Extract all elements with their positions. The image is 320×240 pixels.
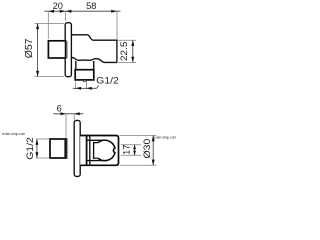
svg-text:58: 58 xyxy=(86,1,96,11)
C-ring cradle xyxy=(98,140,115,160)
wall plate (side view) xyxy=(65,23,71,77)
arrow left of 20 xyxy=(48,10,54,13)
arrow right of 58 xyxy=(111,10,117,13)
extension line holder top right xyxy=(118,39,136,41)
arrow right of 20 xyxy=(60,10,66,13)
svg-text:Ø57: Ø57 xyxy=(24,39,35,59)
G1/2 dimension line (bottom view) xyxy=(36,139,38,158)
hidden thread shading xyxy=(66,138,68,158)
svg-text:G1/2: G1/2 xyxy=(25,137,35,160)
thread arrow right xyxy=(86,87,91,90)
arrow bottom Ø57 xyxy=(36,71,39,77)
svg-text:G1/2: G1/2 xyxy=(96,75,118,85)
dimension line 22.5 xyxy=(132,40,134,62)
clamp slot back wall xyxy=(93,142,95,159)
dimension line Ø30 xyxy=(152,136,154,166)
dimension line Ø57 xyxy=(37,23,39,76)
extension line holder bottom right xyxy=(118,61,136,63)
inlet stub (bottom view) xyxy=(50,139,66,158)
arrow top Ø30 xyxy=(152,136,155,142)
wall plate (bottom view) xyxy=(74,120,80,176)
holder clamp outer (bottom view) xyxy=(80,136,118,166)
outlet dome sides xyxy=(76,61,94,70)
extension line at plate face xyxy=(65,12,67,21)
G1/2 extension bottom xyxy=(36,157,50,159)
dimension Ø30 extension bottom xyxy=(120,164,157,166)
thread dim line xyxy=(73,87,96,89)
clamp arm inner top xyxy=(87,139,105,141)
arrow bottom 22.5 xyxy=(131,57,134,63)
dimension 17 extension top xyxy=(121,144,141,146)
inlet stub (side view) xyxy=(48,41,65,58)
holder body top profile xyxy=(71,35,117,63)
arrow left of 58 xyxy=(66,10,72,13)
clamp left inner line xyxy=(89,136,91,165)
dimension 17 extension bottom xyxy=(121,154,141,156)
clamp arm inner bottom xyxy=(87,160,105,162)
G1/2 arrow bottom xyxy=(35,152,38,158)
dimension line 6 xyxy=(53,113,83,115)
G1/2 arrow top xyxy=(35,139,38,145)
svg-text:reuter-shop.com: reuter-shop.com xyxy=(2,132,26,136)
dimension line 17 xyxy=(134,145,136,156)
extension line plate face bottom view xyxy=(73,115,75,121)
thread arrow left xyxy=(76,87,81,90)
arrow right of 6 xyxy=(74,112,80,115)
dimension line 20/58 xyxy=(45,10,121,12)
extension line at stub left xyxy=(47,12,49,39)
arrow top 17 xyxy=(133,145,136,150)
extension line stub end xyxy=(65,115,67,139)
thread nub xyxy=(83,80,86,81)
extension line at holder right xyxy=(116,12,118,39)
outlet flange xyxy=(75,70,94,80)
svg-text:6: 6 xyxy=(57,104,62,114)
leader to G1/2 xyxy=(96,85,98,88)
arrow bottom Ø30 xyxy=(152,160,155,166)
G1/2 extension top xyxy=(36,138,50,140)
svg-text:Ø30: Ø30 xyxy=(142,139,152,159)
hidden stub edge shading xyxy=(66,41,68,58)
thread dim extension left xyxy=(74,82,76,90)
svg-text:22.5: 22.5 xyxy=(119,42,129,61)
extension line plate top xyxy=(35,22,65,24)
dimension Ø30 extension top xyxy=(120,135,157,137)
svg-text:17: 17 xyxy=(121,145,131,155)
arrow bottom 17 xyxy=(133,151,136,156)
stub thread relief line xyxy=(64,140,66,158)
holder body bottom profile xyxy=(71,57,117,62)
svg-text:20: 20 xyxy=(53,1,63,11)
arrow top 22.5 xyxy=(131,40,134,46)
arrow top Ø57 xyxy=(36,23,39,29)
clamp arm to ring joints xyxy=(94,143,98,159)
thread dim extension right xyxy=(86,82,88,90)
arrow left of 6 xyxy=(61,112,67,115)
svg-text:reuter-shop.com: reuter-shop.com xyxy=(153,136,177,140)
extension line plate bottom xyxy=(35,76,65,78)
